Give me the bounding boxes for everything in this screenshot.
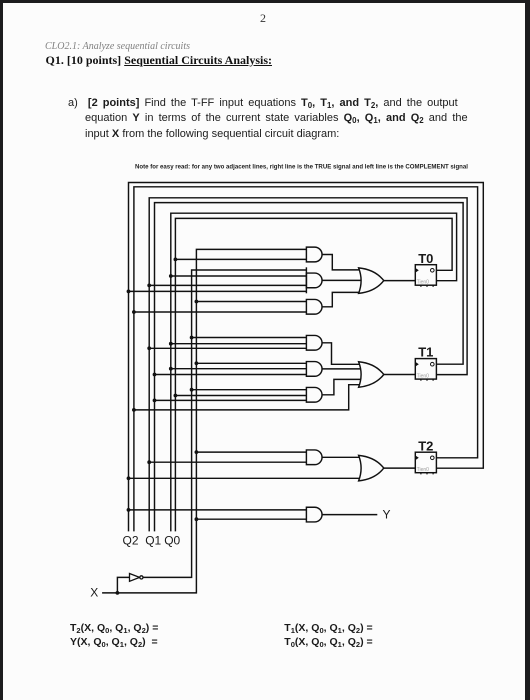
svg-text:Y: Y	[383, 507, 391, 521]
wire AND4 input 2 from Q0'	[171, 343, 307, 345]
node AND4.in3 on Q1'	[147, 346, 151, 350]
node AND7.in1 on X	[195, 450, 199, 454]
node AND7.in2 on Q1'	[147, 460, 151, 464]
wire OR-T1 input 4 from Q2	[134, 385, 361, 410]
page left black bar	[0, 0, 3, 700]
wire AND2 output to OR-T0	[322, 279, 362, 281]
wire AND4 output jog to OR-T1	[322, 343, 361, 365]
wire Y-gate input 2 from X	[196, 518, 306, 520]
wire AND5 input 1 from X	[196, 362, 306, 364]
wire OR-T1 output to T1 flip-flop	[384, 374, 416, 376]
node AND5.in1 on X	[195, 361, 199, 365]
wire AND5 input 3 from Q1	[155, 374, 307, 376]
node AND6.in1 on X'	[190, 388, 194, 392]
wire AND6 input 1 from X'	[192, 389, 307, 391]
wire Q0-complement feedback loop (T0 Q' output to left bus)	[171, 213, 457, 531]
flip-flop U2 T1	[415, 345, 436, 381]
wire AND4 input 1 from X'	[192, 337, 307, 339]
svg-text:Q1: Q1	[145, 534, 161, 548]
paragraph a)	[68, 96, 468, 142]
svg-text:Q0: Q0	[164, 534, 180, 548]
OR gate O3 (T2)	[359, 455, 384, 481]
wire X-complement line from inverter rising to AND2	[143, 270, 306, 577]
AND gate A2 (T0 cluster middle, 4-input)	[306, 273, 322, 288]
wire AND2 input 4 from Q2'	[129, 290, 307, 292]
node AND6.in2 on Q0	[174, 394, 178, 398]
node AND2.in3 on Q1'	[147, 284, 151, 288]
node X branch	[116, 591, 120, 595]
wire AND2 input 2 from Q0'	[171, 275, 307, 277]
wire AND7 input 1 from X	[196, 451, 306, 453]
flip-flop U3 T2	[415, 438, 436, 474]
wire AND5 output to OR-T1	[322, 368, 362, 370]
CLO heading	[45, 41, 190, 52]
wire AND3 input 2 from Q2	[134, 311, 307, 313]
svg-text:Q2: Q2	[122, 534, 138, 548]
wire AND4 input 3 from Q1'	[149, 347, 306, 349]
junction dots	[116, 258, 199, 595]
note line	[135, 164, 468, 170]
svg-text:Tien0: Tien0	[417, 467, 430, 473]
wire OR-T0 output to T0 flip-flop	[384, 280, 416, 282]
AND gate A5 (T1 cluster middle)	[306, 362, 322, 377]
node Y.in2 on X	[195, 517, 199, 521]
AND gate A3 (T0 cluster bottom)	[306, 299, 322, 314]
node AND3.in2 on Q2	[132, 310, 136, 314]
node AND5.in3 on Q1	[153, 373, 157, 377]
wire AND1 output jog to OR-T0	[322, 255, 362, 270]
node AND1.in2 on Q0	[174, 258, 178, 262]
wire Q2 true feedback loop (T2 Q output to left bus)	[134, 187, 478, 532]
wire AND2 input 3 from Q1'	[149, 284, 306, 286]
wire AND5 input 2 from Q0'	[171, 368, 307, 370]
wire AND7 input 2 from Q1'	[149, 461, 306, 463]
wire Y-gate input 1 from Q2'	[129, 509, 307, 511]
page right black bar	[525, 0, 530, 700]
svg-text:T1: T1	[418, 345, 433, 360]
wire Q0 true feedback loop (T0 Q output to left bus)	[175, 218, 452, 531]
AND gate A6 (T1 cluster bottom)	[306, 387, 322, 402]
node AND6.in3 on Q1	[153, 399, 157, 403]
node Y.in1 on Q2'	[127, 508, 131, 512]
node AND4.in1 on X'	[190, 336, 194, 340]
svg-text:T0: T0	[418, 251, 433, 266]
wire AND6 input 2 from Q0	[175, 395, 306, 397]
node AND5.in2 on Q0'	[169, 367, 173, 371]
OR gate O1 (T0)	[359, 268, 384, 294]
OR gate O2 (T1)	[359, 362, 384, 388]
node AND2.in2 on Q0'	[169, 274, 173, 278]
page number	[260, 11, 266, 26]
AND gate A8 (output Y)	[306, 507, 322, 522]
node OR-T1.in4 on Q2	[132, 408, 136, 412]
wire X input line rising to AND1	[102, 249, 306, 593]
node OR-T2.in2 on Q2'	[127, 476, 131, 480]
AND gate A7 (T2 cluster)	[306, 450, 322, 465]
svg-text:T2: T2	[418, 438, 433, 453]
wire X branch to inverter input	[117, 577, 129, 593]
wire AND6 input 3 from Q1	[155, 399, 307, 401]
inverter U4 on X	[130, 574, 143, 582]
svg-text:Tien0: Tien0	[417, 280, 430, 286]
wire Q1-complement feedback loop (T1 Q' output to left bus)	[149, 198, 467, 532]
wire Y gate output	[322, 514, 377, 516]
page top black bar	[0, 0, 530, 3]
Q1 heading	[46, 53, 273, 68]
node AND3.in1 on X	[195, 300, 199, 304]
wire OR-T2 input 2 from Q2'	[129, 477, 363, 479]
node AND4.in2 on Q0'	[169, 342, 173, 346]
wire OR-T2 output to T2 flip-flop	[384, 467, 416, 469]
AND gate A4 (T1 cluster top)	[306, 335, 322, 350]
wire AND1 input 2 from Q0	[175, 258, 306, 260]
wire Q2-complement feedback loop (T2 Q' output, right riser, top run, left bus)	[129, 183, 484, 532]
wire AND3 input 1 from X	[196, 301, 306, 303]
equations	[70, 622, 158, 634]
wire AND6 output jog to OR-T1	[322, 379, 361, 394]
wire AND3 output jog to OR-T0	[322, 292, 362, 306]
node AND2.in4 on Q2'	[127, 290, 131, 294]
flip-flop U1 T0	[415, 251, 436, 287]
svg-text:Tien0: Tien0	[417, 374, 430, 380]
wire AND7 output to OR-T2	[322, 456, 362, 458]
AND gate A1 (T0 cluster top)	[306, 247, 322, 262]
svg-text:X: X	[90, 586, 98, 600]
wire Q1 true feedback loop (T1 Q output to left bus)	[155, 203, 464, 532]
